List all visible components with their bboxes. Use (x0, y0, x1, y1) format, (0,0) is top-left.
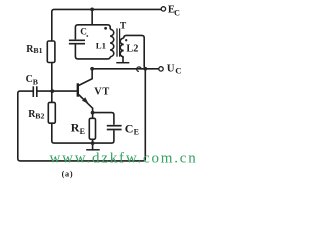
svg-text:L1: L1 (96, 40, 106, 50)
svg-text:B2: B2 (35, 111, 44, 120)
svg-text:T: T (120, 21, 127, 31)
svg-text:B1: B1 (33, 46, 42, 55)
svg-text:L2: L2 (126, 43, 138, 54)
svg-text:U: U (167, 63, 175, 75)
svg-text:www.dzkfw.com.cn: www.dzkfw.com.cn (50, 151, 198, 167)
svg-text:C: C (174, 9, 180, 18)
svg-text:VT: VT (94, 87, 110, 98)
svg-text:E: E (134, 128, 139, 137)
svg-text:(a): (a) (62, 169, 74, 178)
svg-text:R: R (71, 121, 80, 135)
svg-text:C: C (125, 121, 134, 135)
svg-text:E: E (80, 127, 85, 136)
svg-text:B: B (33, 77, 38, 86)
svg-text:C: C (175, 66, 181, 76)
svg-text:C: C (80, 26, 87, 36)
